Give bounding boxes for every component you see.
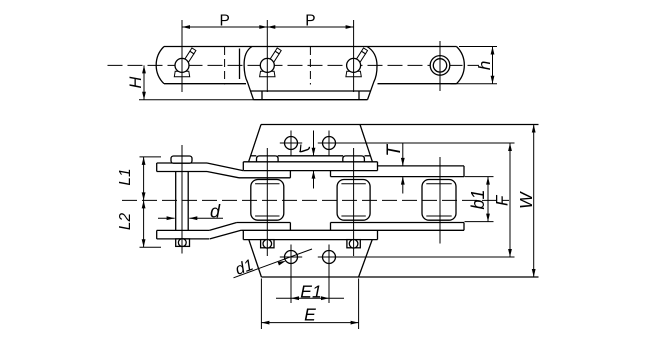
svg-text:h: h: [475, 61, 494, 70]
svg-text:W: W: [516, 191, 536, 209]
svg-text:P: P: [219, 13, 229, 30]
svg-text:b1: b1: [468, 189, 488, 209]
svg-text:E1: E1: [300, 282, 321, 302]
svg-text:P: P: [305, 13, 315, 30]
svg-text:H: H: [127, 76, 145, 88]
svg-text:d: d: [210, 202, 221, 222]
svg-text:L1: L1: [117, 168, 134, 185]
svg-text:T: T: [384, 144, 405, 157]
svg-text:L2: L2: [117, 213, 134, 231]
svg-text:E: E: [304, 305, 316, 325]
svg-text:F: F: [493, 194, 512, 206]
